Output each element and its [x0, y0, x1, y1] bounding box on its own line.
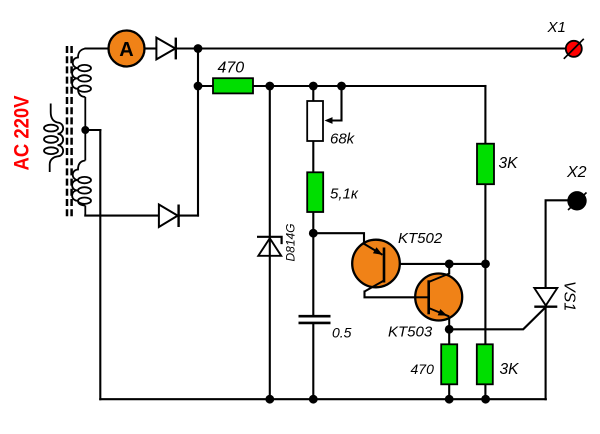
svg-text:68k: 68k — [330, 131, 356, 148]
svg-text:D814G: D814G — [284, 223, 298, 261]
svg-text:470: 470 — [218, 60, 245, 77]
svg-text:AC 220V: AC 220V — [11, 96, 34, 171]
svg-text:470: 470 — [411, 361, 435, 377]
svg-text:3K: 3K — [500, 361, 520, 378]
svg-text:KT503: KT503 — [388, 324, 433, 341]
svg-text:KT502: KT502 — [398, 230, 443, 247]
svg-text:3K: 3K — [499, 155, 519, 172]
svg-text:X2: X2 — [566, 164, 587, 181]
svg-text:A: A — [119, 39, 133, 61]
svg-text:X1: X1 — [547, 19, 566, 36]
svg-text:VS1: VS1 — [561, 281, 578, 311]
svg-text:5,1к: 5,1к — [330, 186, 359, 203]
svg-text:0.5: 0.5 — [332, 325, 352, 341]
